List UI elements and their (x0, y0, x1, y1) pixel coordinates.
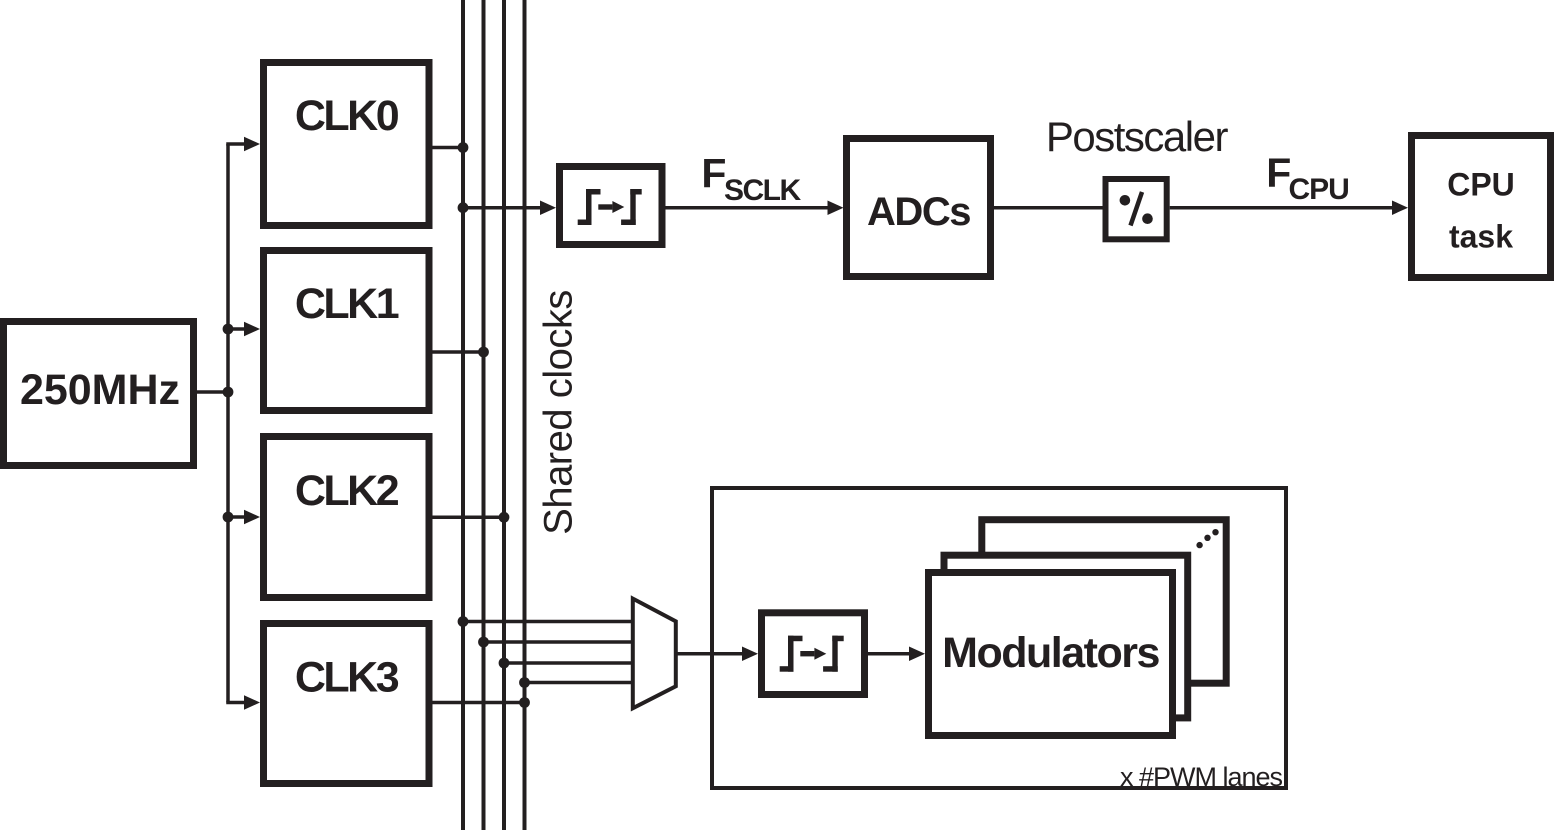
svg-text:Shared clocks: Shared clocks (537, 290, 581, 535)
svg-text:CPU: CPU (1289, 173, 1349, 206)
svg-text:task: task (1449, 218, 1513, 254)
svg-text:CLK0: CLK0 (295, 92, 399, 140)
svg-text:CLK3: CLK3 (295, 654, 399, 702)
svg-text:ADCs: ADCs (867, 190, 970, 234)
svg-text:SCLK: SCLK (724, 174, 802, 207)
svg-text:250MHz: 250MHz (20, 366, 180, 414)
svg-text:Postscaler: Postscaler (1046, 113, 1229, 160)
svg-text:CLK1: CLK1 (295, 280, 399, 328)
svg-text:F: F (701, 151, 726, 197)
svg-text:F: F (1266, 150, 1291, 196)
svg-text:Modulators: Modulators (942, 629, 1159, 677)
svg-text:CLK2: CLK2 (295, 467, 399, 515)
svg-text:x #PWM lanes: x #PWM lanes (1120, 762, 1283, 792)
svg-text:CPU: CPU (1447, 167, 1515, 203)
